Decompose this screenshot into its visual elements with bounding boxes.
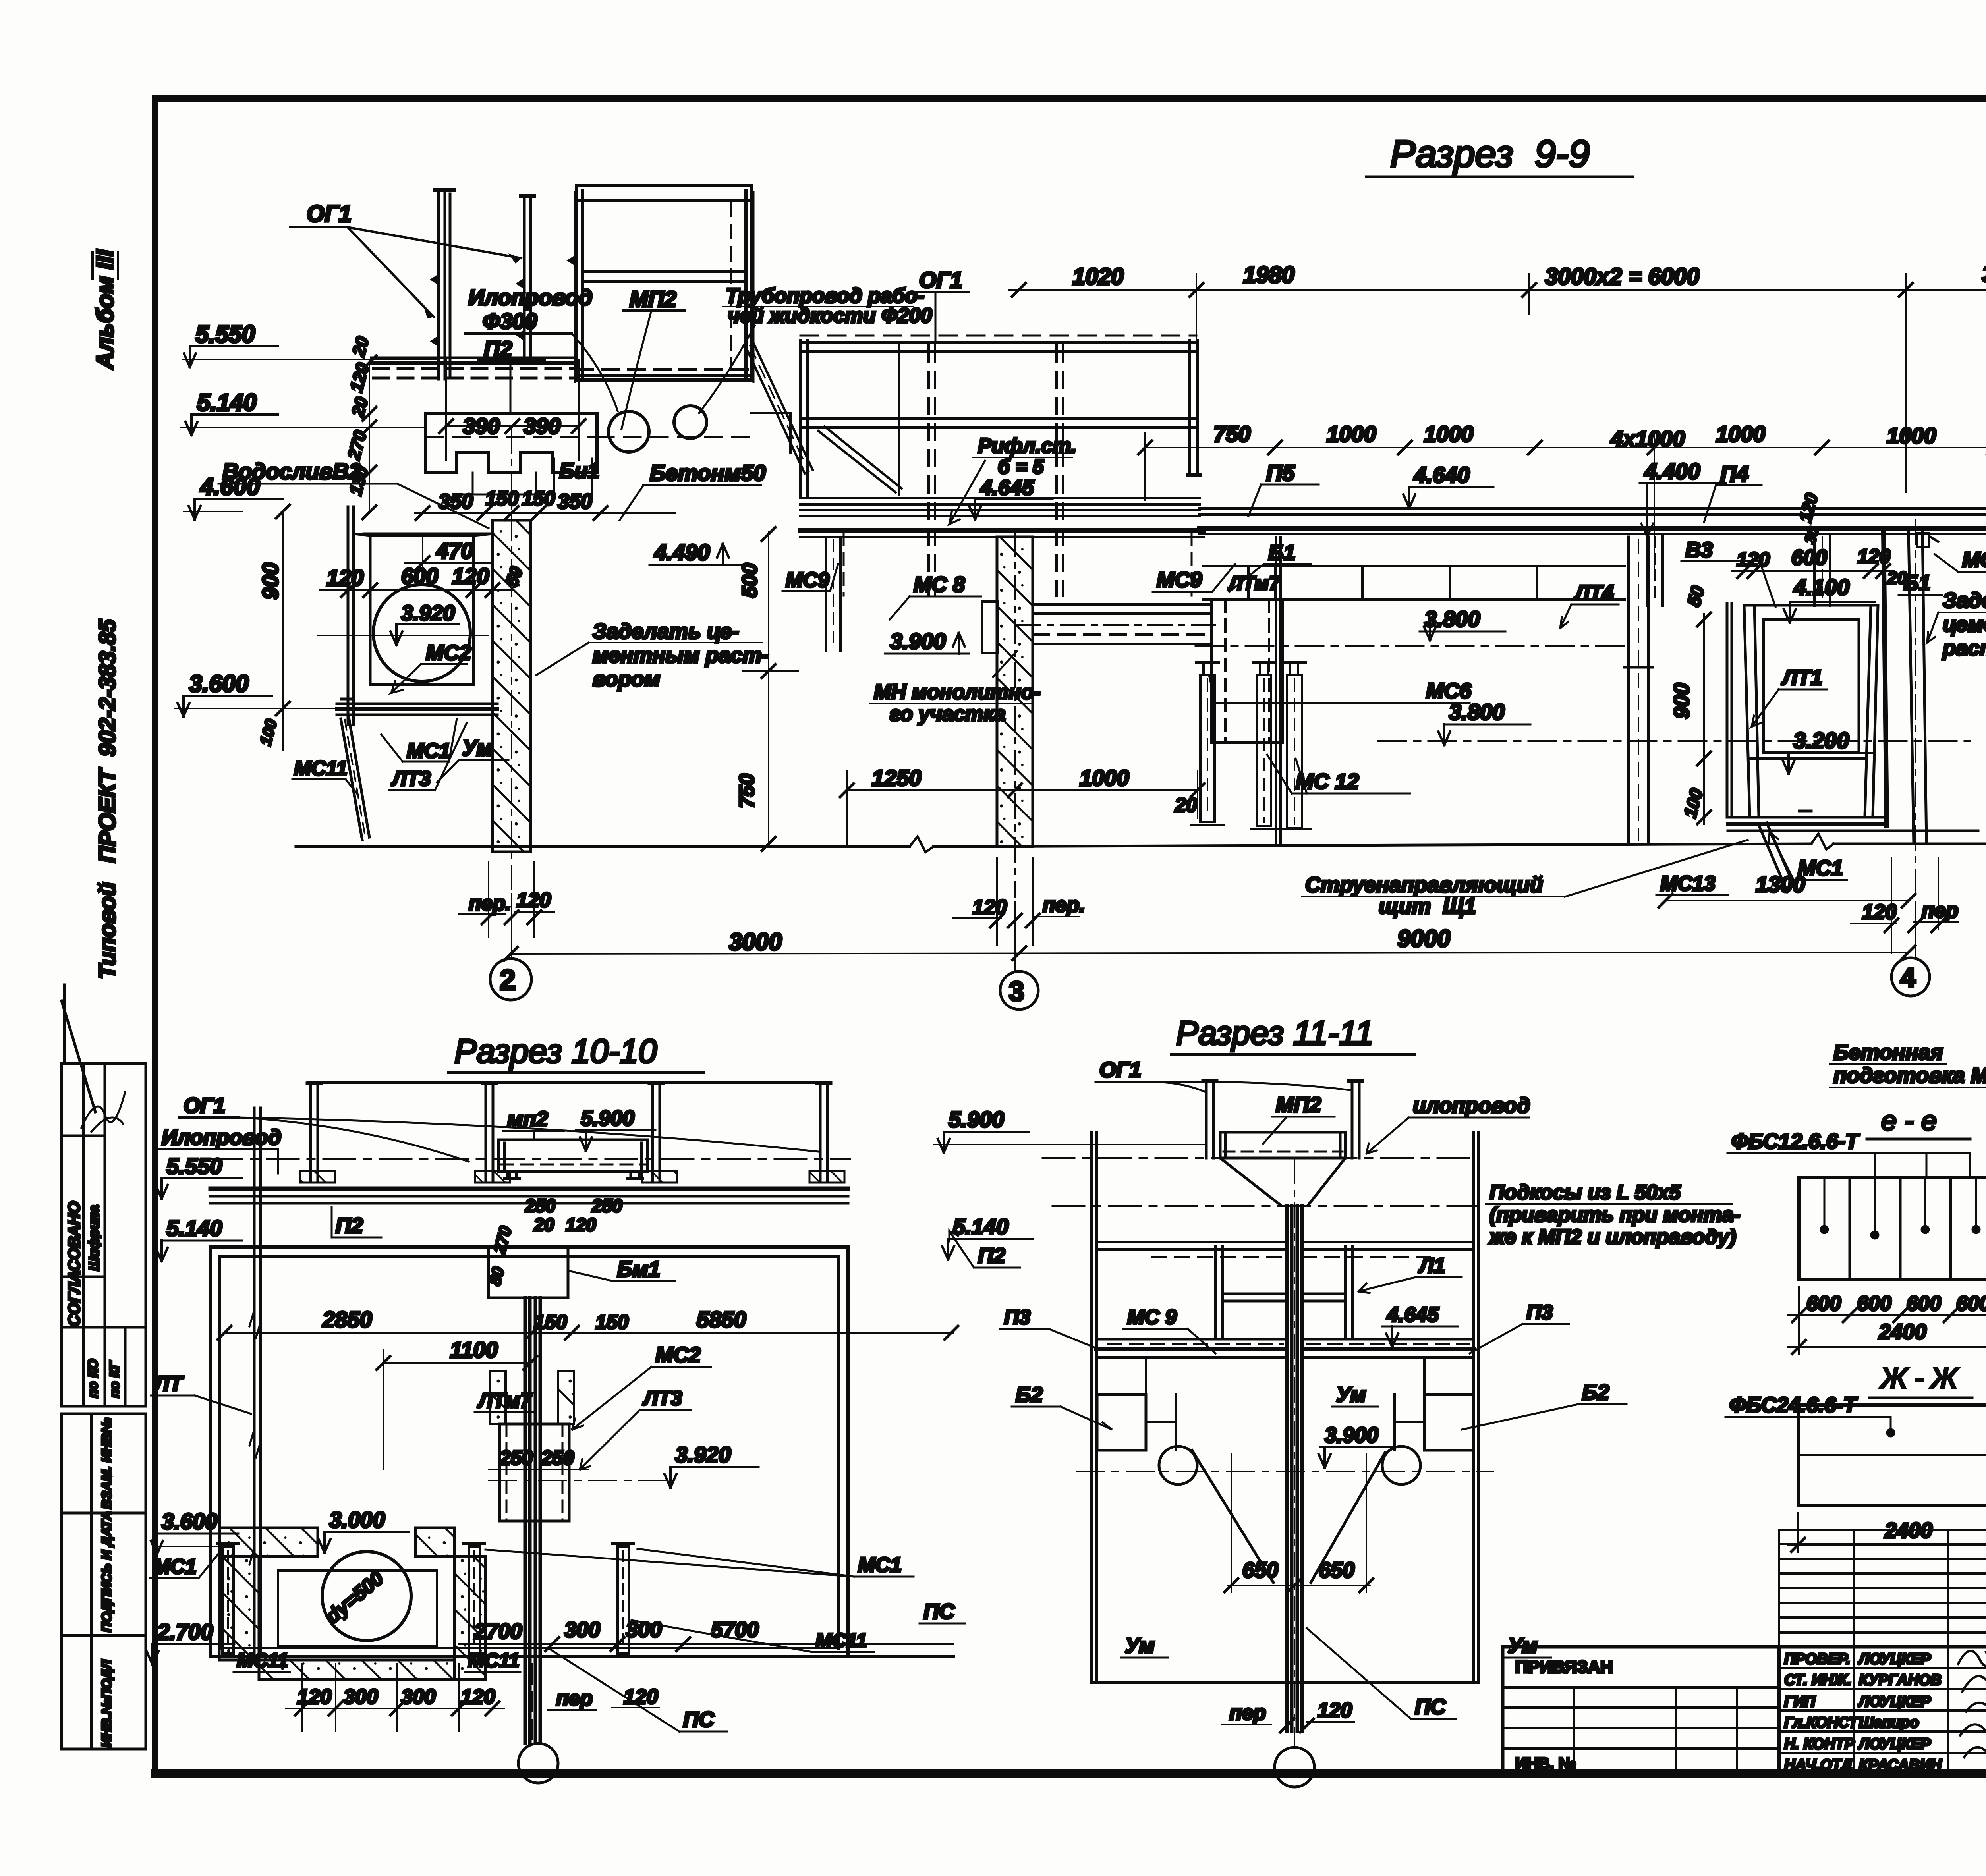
svg-text:МС1: МС1: [153, 1555, 197, 1578]
svg-text:5.550: 5.550: [166, 1154, 222, 1179]
posts: [1203, 1081, 1362, 1158]
svg-text:ЛТм7: ЛТм7: [1228, 572, 1281, 594]
svg-text:600: 600: [1956, 1292, 1986, 1315]
platform deck multi-line band: [800, 498, 1204, 537]
svg-text:вором: вором: [593, 667, 660, 691]
svg-text:раствором: раствором: [1942, 636, 1986, 660]
svg-text:Ж - Ж: Ж - Ж: [1880, 1363, 1958, 1393]
ms2 circle: [373, 585, 470, 681]
svg-text:МС 8: МС 8: [914, 573, 965, 596]
svg-text:dу=500: dу=500: [321, 1567, 388, 1628]
svg-text:МС11: МС11: [237, 1649, 288, 1671]
svg-text:4.100: 4.100: [1793, 575, 1849, 600]
left tank with MS2 circle: [337, 507, 497, 724]
svg-text:750: 750: [1213, 421, 1250, 446]
svg-text:3.600: 3.600: [189, 670, 249, 697]
hatched wall column at axis 2: [493, 520, 531, 852]
svg-text:Рифл.ст.: Рифл.ст.: [978, 434, 1076, 457]
dash-dot axes: [1043, 1157, 1478, 1159]
svg-text:120: 120: [1795, 491, 1822, 524]
left stamp table: [62, 985, 146, 1749]
svg-text:3.920: 3.920: [675, 1442, 731, 1467]
svg-text:3.920: 3.920: [401, 601, 455, 625]
middle rows: [1779, 1647, 1986, 1774]
shaft: [1287, 1206, 1302, 1731]
svg-text:НАЧ.ОТД: НАЧ.ОТД: [1784, 1757, 1852, 1774]
svg-text:3.200: 3.200: [1793, 728, 1849, 753]
svg-text:ЛТ3: ЛТ3: [391, 767, 431, 790]
svg-text:2700: 2700: [474, 1619, 522, 1643]
svg-text:3.900: 3.900: [1325, 1423, 1378, 1447]
svg-text:120: 120: [452, 564, 489, 589]
svg-text:100: 100: [1680, 786, 1706, 820]
MS12 piles: [1192, 662, 1311, 829]
svg-text:по КГ: по КГ: [107, 1360, 122, 1398]
svg-text:600: 600: [1791, 546, 1827, 569]
B2 blocks: [1097, 1395, 1146, 1450]
svg-text:20: 20: [1175, 794, 1197, 816]
svg-text:600: 600: [1907, 1292, 1941, 1315]
svg-text:750: 750: [736, 774, 759, 808]
svg-text:ЛТ1: ЛТ1: [1781, 666, 1822, 689]
posts on deck: [307, 1083, 831, 1181]
grid bubble 3: [1000, 971, 1038, 1009]
svg-text:3: 3: [1009, 976, 1024, 1007]
svg-text:300: 300: [344, 1685, 378, 1708]
MP2 trough: [1220, 1132, 1345, 1158]
svg-text:ИНВ.№ПОДЛ: ИНВ.№ПОДЛ: [99, 1660, 114, 1747]
svg-text:Б2: Б2: [1582, 1380, 1609, 1404]
water level small line: [422, 535, 423, 577]
svg-text:ОГ1: ОГ1: [919, 267, 962, 292]
svg-text:МС2: МС2: [426, 641, 471, 665]
svg-text:900: 900: [258, 563, 283, 600]
svg-text:чей жидкости Ф200: чей жидкости Ф200: [728, 304, 932, 327]
sidebar text: Типовой проект 902-2-383.85: [95, 619, 120, 979]
bottom axis bubble: [518, 1743, 558, 1783]
svg-text:270: 270: [344, 428, 371, 462]
svg-text:ОГ1: ОГ1: [307, 201, 352, 227]
svg-text:5.140: 5.140: [197, 389, 257, 416]
svg-text:20: 20: [349, 334, 373, 359]
svg-text:1000: 1000: [1080, 765, 1129, 790]
svg-text:Гл.КОНСТ: Гл.КОНСТ: [1784, 1714, 1859, 1731]
pipes circles: [609, 411, 649, 452]
svg-text:ПРОВЕР.: ПРОВЕР.: [1784, 1651, 1850, 1668]
svg-text:Бетонм50: Бетонм50: [650, 460, 766, 485]
central platform railing: [800, 336, 1200, 596]
svg-text:9000: 9000: [1397, 925, 1450, 952]
svg-text:Ум: Ум: [1125, 1634, 1155, 1658]
rotated dims 50 900 100: [1683, 583, 1708, 608]
Zadelat wall right (axis 4): [1884, 532, 1926, 843]
svg-text:Ум: Ум: [1336, 1383, 1366, 1407]
middle guard post: [516, 196, 534, 359]
svg-text:ЛТ4: ЛТ4: [1574, 581, 1613, 604]
svg-text:3.600: 3.600: [162, 1509, 217, 1534]
tank floor band / MS1 beam: [337, 703, 497, 705]
inclined pipe from tank to platform: [746, 344, 813, 473]
svg-text:Разрез 10-10: Разрез 10-10: [454, 1033, 657, 1070]
svg-text:пер: пер: [1229, 1701, 1266, 1724]
svg-text:ЛТ3: ЛТ3: [642, 1387, 682, 1410]
stamp signatures: [81, 1092, 125, 1132]
B1 beam band with joints: [1204, 566, 1625, 600]
svg-text:Бм1: Бм1: [617, 1257, 660, 1281]
svg-text:Ф300: Ф300: [483, 309, 537, 334]
svg-text:(приварить при монта-: (приварить при монта-: [1489, 1203, 1740, 1226]
svg-text:150: 150: [534, 1311, 567, 1333]
svg-text:ГИП: ГИП: [1784, 1693, 1816, 1710]
svg-text:1100: 1100: [450, 1337, 498, 1362]
signatures column squiggles: [1958, 1650, 1986, 1771]
rotated small dims 20 120 270 130: [344, 334, 373, 497]
V3 / LT1 tank box: [1727, 604, 1978, 831]
svg-text:3000: 3000: [729, 928, 782, 955]
svg-text:МС6: МС6: [1426, 679, 1472, 703]
svg-text:3.900: 3.900: [890, 629, 946, 654]
ground line left part: [296, 845, 910, 848]
MS1 beam below: [1728, 816, 1887, 819]
svg-text:650: 650: [1319, 1558, 1354, 1582]
svg-text:МС7: МС7: [1962, 548, 1986, 572]
svg-text:120: 120: [461, 1685, 495, 1708]
svg-text:МП2: МП2: [630, 286, 676, 311]
svg-text:е - е: е - е: [1881, 1105, 1937, 1136]
svg-text:Б1: Б1: [1903, 571, 1930, 595]
svg-text:МС1: МС1: [407, 739, 450, 762]
Bi1 legs and label: [472, 473, 474, 494]
svg-text:ПОДПИСЬ И ДАТА: ПОДПИСЬ И ДАТА: [99, 1511, 114, 1632]
dash-dot level line 3.800: [1196, 645, 1629, 647]
svg-text:250: 250: [591, 1195, 622, 1216]
svg-text:Заделать: Заделать: [1943, 589, 1986, 612]
svg-text:350: 350: [439, 490, 473, 513]
svg-text:Шифрина: Шифрина: [87, 1205, 102, 1271]
svg-text:П2: П2: [336, 1214, 363, 1237]
svg-text:250: 250: [541, 1447, 574, 1469]
MP2 tank box: [566, 186, 753, 382]
svg-text:го участка: го участка: [890, 703, 1006, 726]
P5 deck slab: [1200, 508, 1986, 534]
svg-text:5.140: 5.140: [953, 1214, 1008, 1239]
inner posts MS11: [218, 1543, 634, 1654]
dim 900 rotated + 100: [258, 563, 283, 600]
svg-text:МС9: МС9: [786, 569, 829, 592]
svg-text:1000: 1000: [1327, 421, 1376, 446]
svg-text:Л1: Л1: [1418, 1254, 1445, 1277]
svg-text:МС2: МС2: [655, 1343, 701, 1367]
LT ladder left: [249, 1108, 261, 1656]
tank floor hatched band: [219, 1528, 485, 1679]
svg-text:600: 600: [401, 564, 438, 589]
svg-text:350: 350: [558, 490, 592, 513]
svg-text:КРАСАВИН: КРАСАВИН: [1859, 1757, 1942, 1774]
svg-text:ФБС12.6.6-Т: ФБС12.6.6-Т: [1731, 1129, 1860, 1153]
svg-text:270: 270: [490, 1224, 515, 1256]
svg-text:300: 300: [564, 1618, 600, 1642]
svg-text:же к МП2 и илоправоду): же к МП2 и илоправоду): [1488, 1226, 1736, 1249]
dim 20 near deck: [1983, 493, 1986, 517]
grid bubble 2: [490, 959, 531, 1000]
svg-text:5.140: 5.140: [166, 1216, 222, 1241]
svg-text:1000: 1000: [1424, 421, 1474, 446]
svg-text:цементным: цементным: [1943, 612, 1986, 636]
svg-text:ЛОУЦКЕР: ЛОУЦКЕР: [1858, 1736, 1931, 1752]
svg-text:СОГЛАСОВАНО: СОГЛАСОВАНО: [66, 1201, 83, 1326]
big pipe circle dy500: [322, 1552, 411, 1641]
svg-text:50: 50: [1683, 583, 1708, 608]
svg-text:ЛТм7: ЛТм7: [477, 1389, 533, 1412]
svg-text:4.640: 4.640: [1414, 462, 1470, 487]
grid bubble 4: [1891, 958, 1930, 996]
svg-text:4.645: 4.645: [1387, 1303, 1439, 1326]
svg-text:4.645: 4.645: [980, 476, 1034, 500]
svg-text:б = 5: б = 5: [998, 455, 1044, 478]
svg-text:1250: 1250: [872, 765, 922, 790]
circles: [1159, 1446, 1197, 1484]
svg-text:1300: 1300: [1756, 872, 1805, 897]
svg-text:120: 120: [1737, 548, 1770, 571]
svg-text:650: 650: [1242, 1558, 1278, 1582]
svg-text:илопровод: илопровод: [1413, 1094, 1530, 1117]
tank bottom: [211, 1655, 953, 1658]
svg-text:Подкосы из L 50х5: Подкосы из L 50х5: [1489, 1181, 1681, 1204]
P2 slab box with 390 dims: [426, 414, 750, 473]
svg-text:Альбом III: Альбом III: [92, 249, 118, 370]
svg-text:150: 150: [522, 487, 555, 510]
svg-text:Ум: Ум: [462, 735, 493, 760]
svg-text:П5: П5: [1266, 460, 1295, 485]
svg-text:П4: П4: [1720, 461, 1748, 486]
Bm1 column block: [489, 1247, 568, 1298]
svg-text:СТ. ИНЖ.: СТ. ИНЖ.: [1784, 1672, 1851, 1689]
svg-text:ПС: ПС: [1415, 1695, 1446, 1719]
svg-text:МП2: МП2: [1276, 1093, 1321, 1117]
svg-text:ментным раст-: ментным раст-: [593, 643, 769, 667]
svg-text:щит Щ1: щит Щ1: [1379, 894, 1476, 918]
svg-text:120: 120: [1318, 1699, 1352, 1722]
svg-text:ПРИВЯЗАН: ПРИВЯЗАН: [1515, 1657, 1613, 1677]
MN monolith beam: [1017, 604, 1215, 644]
shield plate Щ1: [1275, 537, 1277, 844]
svg-text:ПС: ПС: [683, 1708, 715, 1731]
shaft guide box: [500, 1424, 569, 1521]
P4 deck supports: [1647, 534, 1830, 606]
deck slabs P3: [1096, 1339, 1474, 1357]
deck rails upper: [1096, 1242, 1474, 1257]
svg-text:Разрез 11-11: Разрез 11-11: [1176, 1014, 1374, 1052]
svg-text:2.700: 2.700: [157, 1619, 213, 1644]
svg-text:4.400: 4.400: [1644, 459, 1700, 484]
svg-text:Заделать це-: Заделать це-: [593, 620, 739, 643]
svg-text:1000х2: 1000х2: [1984, 363, 1986, 428]
svg-text:МС 9: МС 9: [1127, 1306, 1177, 1329]
svg-text:МН монолитно-: МН монолитно-: [874, 681, 1041, 704]
MP2 trough: [498, 1140, 647, 1179]
tank walls: [211, 1247, 848, 1657]
svg-text:Бетонная: Бетонная: [1833, 1040, 1943, 1064]
LTm7 box: [1211, 600, 1283, 743]
dim row 2: [1213, 421, 1986, 451]
svg-text:пер: пер: [556, 1687, 593, 1710]
svg-text:Н. КОНТР: Н. КОНТР: [1784, 1736, 1855, 1752]
svg-text:подготовка М50: подготовка М50: [1833, 1063, 1986, 1087]
svg-text:П2: П2: [978, 1244, 1005, 1268]
bottom line: [1091, 1681, 1478, 1684]
svg-text:3000х2 = 6000: 3000х2 = 6000: [1545, 264, 1700, 290]
svg-text:1020: 1020: [1072, 264, 1124, 290]
svg-text:ВЗАМ. ИНВ№: ВЗАМ. ИНВ№: [99, 1418, 114, 1509]
svg-text:Типовой ПРОЕКТ 902-2-383.85: Типовой ПРОЕКТ 902-2-383.85: [95, 619, 120, 979]
svg-text:20: 20: [533, 1214, 554, 1235]
svg-text:П3: П3: [1526, 1301, 1553, 1324]
svg-text:3.800: 3.800: [1424, 606, 1480, 631]
svg-text:300: 300: [401, 1685, 436, 1708]
svg-text:ВодосливВ2: ВодосливВ2: [222, 459, 361, 484]
left post (OG1): [430, 190, 454, 379]
svg-text:Струенаправляющий: Струенаправляющий: [1305, 873, 1543, 897]
svg-text:470: 470: [436, 538, 473, 563]
svg-text:250: 250: [525, 1195, 556, 1216]
svg-text:Илопровод: Илопровод: [162, 1125, 281, 1149]
dim row 1: [1072, 261, 1986, 290]
svg-text:120: 120: [624, 1685, 658, 1708]
svg-text:МС11: МС11: [468, 1649, 520, 1671]
svg-text:П2: П2: [484, 336, 512, 361]
svg-text:МС1: МС1: [858, 1554, 902, 1577]
tank top deck (el 5.140): [211, 1245, 848, 1249]
svg-text:3.000: 3.000: [329, 1507, 385, 1532]
svg-text:5.550: 5.550: [195, 321, 255, 347]
svg-text:1000: 1000: [1887, 423, 1936, 448]
svg-text:4: 4: [1900, 962, 1916, 993]
svg-text:1000: 1000: [1716, 421, 1766, 446]
svg-text:ЛТ: ЛТ: [153, 1372, 184, 1395]
dash-dot pipe axis: [211, 1158, 850, 1160]
svg-text:5.900: 5.900: [949, 1107, 1004, 1132]
svg-text:250: 250: [499, 1447, 533, 1469]
svg-text:ОГ1: ОГ1: [184, 1094, 225, 1117]
svg-text:ЛОУЦКЕР: ЛОУЦКЕР: [1858, 1651, 1931, 1668]
svg-text:1980: 1980: [1243, 262, 1294, 288]
svg-text:ПС: ПС: [923, 1600, 955, 1623]
svg-text:5.900: 5.900: [581, 1106, 634, 1130]
funnel: [1220, 1158, 1345, 1205]
MS11 strut left tank: [341, 717, 369, 840]
svg-text:мп2: мп2: [507, 1107, 548, 1131]
svg-text:В3: В3: [1685, 538, 1713, 562]
svg-text:500: 500: [738, 563, 761, 598]
svg-text:3000: 3000: [1982, 261, 1986, 287]
svg-text:Б2: Б2: [1016, 1383, 1043, 1407]
svg-text:пер.: пер.: [1043, 894, 1085, 917]
svg-text:по КО: по КО: [85, 1359, 100, 1398]
svg-text:пер: пер: [1922, 899, 1958, 922]
svg-text:120: 120: [566, 1214, 596, 1235]
svg-text:Шапиро: Шапиро: [1859, 1714, 1919, 1731]
post base pads hatched: [300, 1171, 844, 1183]
svg-text:КУРГАНОВ: КУРГАНОВ: [1859, 1672, 1942, 1689]
V lines: [1192, 1450, 1273, 1583]
svg-text:4.490: 4.490: [654, 540, 710, 565]
svg-text:Илопровод: Илопровод: [468, 285, 592, 310]
deck between post and tank (el.5.550): [371, 358, 577, 378]
svg-text:2400: 2400: [1878, 1320, 1926, 1344]
svg-text:600: 600: [1806, 1292, 1841, 1315]
svg-text:Б1: Б1: [1268, 541, 1295, 565]
svg-text:100: 100: [257, 717, 280, 747]
svg-text:2: 2: [500, 964, 516, 996]
deck band: [211, 1189, 848, 1203]
svg-text:2850: 2850: [322, 1307, 372, 1332]
tank walls: [1091, 1132, 1478, 1683]
LT4 ladder tower: [1625, 537, 1652, 843]
sidebar text: Альбом III: [92, 249, 118, 370]
MS7 bracket + label: [1917, 533, 1938, 547]
svg-text:900: 900: [1670, 683, 1694, 719]
svg-text:5850: 5850: [697, 1307, 746, 1332]
svg-text:600: 600: [1857, 1292, 1891, 1315]
svg-text:пер.: пер.: [469, 892, 511, 915]
svg-text:Би1: Би1: [559, 459, 599, 483]
svg-text:МС13: МС13: [1660, 872, 1716, 895]
svg-text:П3: П3: [1004, 1306, 1030, 1329]
svg-text:Разрез 9-9: Разрез 9-9: [1390, 133, 1590, 175]
svg-text:150: 150: [595, 1311, 629, 1333]
svg-text:120: 120: [326, 565, 363, 590]
hatched column axis 3: [997, 537, 1033, 847]
svg-text:МС11: МС11: [294, 757, 348, 780]
svg-text:ОГ1: ОГ1: [1099, 1058, 1141, 1082]
svg-text:МС9: МС9: [1157, 568, 1202, 592]
privyazan box: [1503, 1687, 1779, 1774]
central shaft: [525, 1298, 540, 1743]
svg-text:ИНВ. №: ИНВ. №: [1515, 1755, 1576, 1772]
svg-text:ЛОУЦКЕР: ЛОУЦКЕР: [1858, 1693, 1931, 1710]
railing posts inner: [1215, 1246, 1352, 1339]
bottom bubble: [1275, 1747, 1314, 1787]
MN beam bearing pad: [982, 602, 998, 653]
LTm7 / LT3 hatched pads and box (10-10): [490, 1371, 574, 1424]
